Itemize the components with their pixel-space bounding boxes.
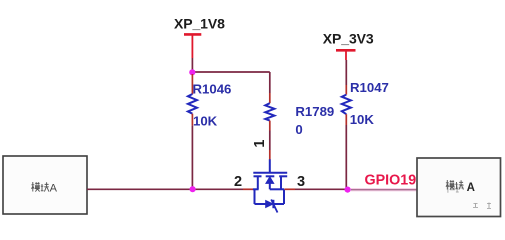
wire R1046 bottom to main node: [191, 126, 193, 190]
wire junction to R1046 top pin: [191, 72, 193, 75]
power symbol XP_1V8 rail: [184, 34, 201, 58]
svg-text:2: 2: [234, 174, 242, 190]
svg-text:0: 0: [295, 122, 302, 137]
wire 3V3 stub to R1047: [345, 60, 347, 85]
net label GPIO19: [365, 173, 417, 189]
transistor Q1 pin 1 lead (gate): [269, 150, 271, 160]
wire top horizontal (1V8 node to R1789 branch): [192, 71, 269, 73]
wire R1047 bottom to GPIO node: [345, 125, 347, 190]
wire main horizontal (module A to Q1 pin 2): [87, 188, 243, 190]
svg-text:R1046: R1046: [193, 82, 232, 97]
svg-text:XP_1V8: XP_1V8: [174, 15, 225, 31]
resistor R1046 pin 1 (top lead): [191, 74, 193, 94]
net label XP_3V3: [323, 31, 374, 47]
label R1047: [350, 80, 389, 95]
pin number 3: [297, 174, 305, 190]
svg-text:R1047: R1047: [350, 80, 389, 95]
module block A (left): [3, 156, 87, 214]
resistor R1789 body: [265, 103, 274, 120]
svg-text:3: 3: [297, 174, 305, 190]
svg-text:R1789: R1789: [295, 104, 334, 119]
value 10K (R1046): [193, 113, 218, 128]
wire GPIO19 highlighted (to right module): [351, 188, 417, 191]
resistor R1046 pin 2 (bottom lead): [191, 114, 193, 126]
svg-text:10K: 10K: [193, 113, 218, 128]
resistor R1789 pin 2 (bottom lead): [269, 121, 271, 131]
power symbol XP_3V3 rail: [336, 50, 356, 60]
label 模块A (right box, smudged): [446, 180, 475, 194]
right box small marks: [473, 203, 491, 209]
transistor Q1 body-diode loop: [255, 189, 285, 212]
module block A (right): [417, 158, 501, 217]
wire R1789 to transistor gate: [269, 131, 271, 151]
wire R1789 branch vertical top: [269, 72, 271, 93]
pin number 1 (rotated): [252, 140, 268, 148]
transistor Q1 (N-MOSFET) body: [253, 159, 287, 189]
svg-text:A: A: [467, 182, 475, 194]
svg-text:10K: 10K: [350, 112, 375, 127]
node junction dot (GPIO19 net): [345, 187, 351, 193]
resistor R1047 body: [342, 95, 351, 115]
transistor Q1 pin 3 lead: [285, 188, 296, 190]
label R1789: [295, 104, 334, 119]
resistor R1047 pin 2 (bottom lead): [345, 114, 347, 125]
svg-text:1: 1: [252, 140, 268, 148]
value 0 (R1789): [295, 122, 302, 137]
resistor R1046 body: [188, 94, 197, 114]
pin number 2: [234, 174, 242, 190]
svg-text:GPIO19: GPIO19: [365, 173, 417, 189]
wire Q1 pin 3 to GPIO junction: [295, 188, 345, 190]
svg-text:A: A: [50, 182, 58, 194]
svg-text:XP_3V3: XP_3V3: [323, 31, 374, 47]
label R1046: [193, 82, 232, 97]
node junction dot (left net at R1046): [190, 186, 196, 192]
node junction dot (1V8 net): [189, 69, 195, 75]
wire 1V8 stub to junction: [191, 58, 193, 72]
resistor R1789 pin 1 (top lead): [269, 93, 271, 103]
net label XP_1V8: [174, 15, 225, 31]
transistor Q1 pin 2 lead: [243, 188, 253, 190]
value 10K (R1047): [350, 112, 375, 127]
label 模块A (left box): [31, 182, 57, 194]
resistor R1047 pin 1 (top lead): [345, 85, 347, 95]
